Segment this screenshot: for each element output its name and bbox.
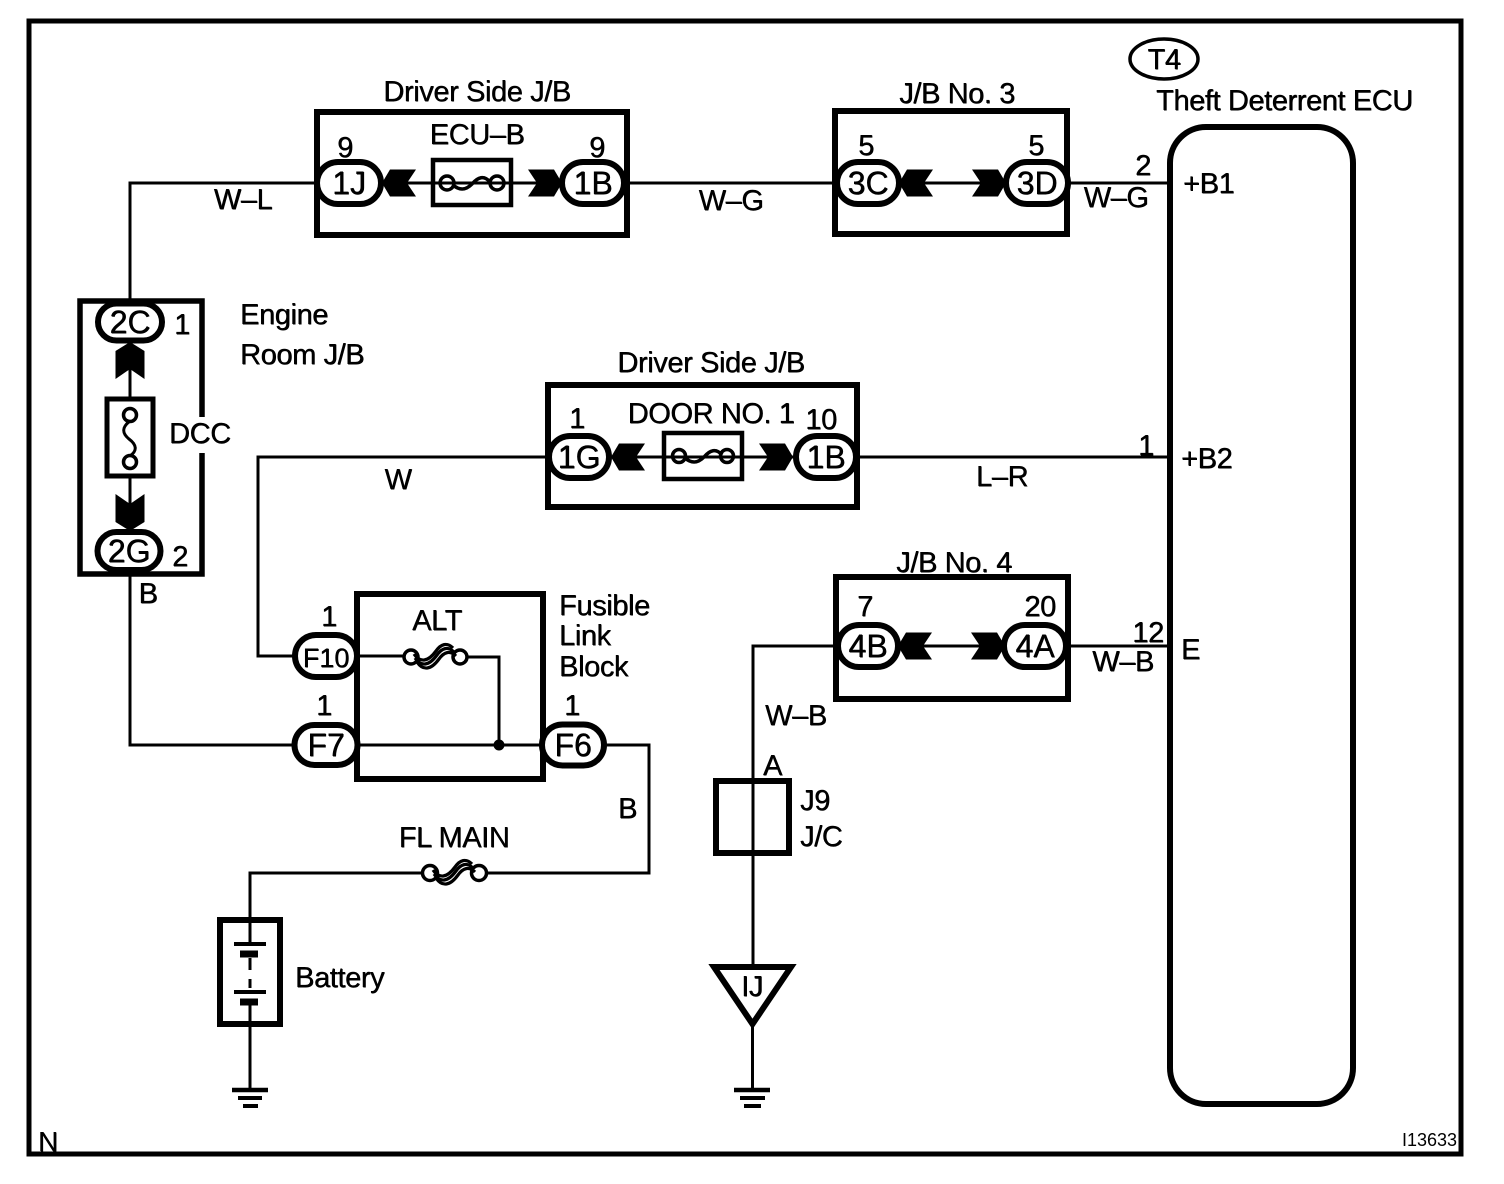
- svg-text:N: N: [39, 1126, 59, 1157]
- svg-text:FL MAIN: FL MAIN: [399, 822, 510, 854]
- fusible link FL MAIN: [423, 866, 438, 881]
- wire inside: [899, 182, 1006, 185]
- ECU box: [1170, 127, 1353, 1104]
- connector F6: [542, 725, 604, 766]
- wire inside vertical: [129, 340, 132, 415]
- svg-text:20: 20: [1025, 591, 1056, 623]
- junction node: [494, 740, 505, 751]
- wire inside: [609, 456, 796, 459]
- svg-text:1B: 1B: [807, 439, 846, 475]
- arrow right: [528, 170, 562, 197]
- svg-text:10: 10: [806, 404, 837, 436]
- fuse DCC: [107, 399, 153, 476]
- connector 3C: [837, 162, 899, 204]
- svg-text:1: 1: [570, 403, 586, 435]
- wire from 4B down to IJ: [753, 646, 838, 967]
- svg-text:7: 7: [858, 591, 874, 623]
- svg-text:3C: 3C: [848, 165, 889, 201]
- svg-text:3D: 3D: [1017, 165, 1058, 201]
- svg-text:2: 2: [173, 541, 189, 573]
- svg-text:W–B: W–B: [766, 700, 828, 732]
- junction box J/B No.3: [835, 111, 1067, 234]
- label DCC: [164, 417, 234, 453]
- svg-text:F10: F10: [303, 643, 350, 673]
- arrow right: [972, 170, 1006, 197]
- connector 2C: [98, 304, 162, 341]
- svg-text:2C: 2C: [110, 304, 151, 340]
- wire from FL MAIN to battery: [250, 873, 422, 920]
- junction box: [548, 385, 857, 507]
- junction box Engine Room J/B: [80, 301, 202, 574]
- connector 1B: [796, 436, 856, 478]
- svg-text:W: W: [385, 464, 413, 496]
- arrow left: [899, 170, 933, 197]
- arrow left: [382, 170, 416, 197]
- svg-text:+B2: +B2: [1182, 443, 1233, 475]
- svg-text:Battery: Battery: [296, 962, 386, 994]
- connector 4A: [1004, 625, 1066, 667]
- wire from ALT to junction: [467, 657, 499, 745]
- svg-text:12: 12: [1133, 617, 1164, 649]
- arrow down: [116, 494, 145, 531]
- svg-text:1: 1: [322, 601, 338, 633]
- arrow left: [611, 444, 645, 471]
- wire to ECU E: [1066, 645, 1170, 648]
- ground triangle IJ: [714, 967, 791, 1024]
- svg-text:DOOR NO. 1: DOOR NO. 1: [628, 398, 795, 430]
- svg-text:Theft Deterrent ECU: Theft Deterrent ECU: [1157, 85, 1414, 117]
- svg-text:Block: Block: [560, 651, 630, 683]
- wire from F6 down to FL MAIN: [487, 745, 649, 873]
- wire inside: [898, 645, 1005, 648]
- svg-text:4B: 4B: [849, 628, 888, 664]
- fuse DOOR NO.1: [664, 433, 742, 479]
- battery box: [220, 920, 280, 1024]
- arrow right: [759, 444, 793, 471]
- svg-text:2G: 2G: [108, 533, 151, 569]
- svg-text:L–R: L–R: [977, 461, 1029, 493]
- connector F7: [295, 725, 358, 765]
- svg-text:W–G: W–G: [1084, 182, 1149, 214]
- wire to ECU +B2: [856, 456, 1170, 459]
- wire from IJ to ground: [751, 1024, 754, 1090]
- connector 3D: [1006, 162, 1068, 204]
- svg-text:Driver Side J/B: Driver Side J/B: [384, 76, 571, 108]
- fuse ECU-B: [433, 160, 511, 205]
- connector 4B: [838, 625, 898, 667]
- wire from 1G to corner and down to F10: [258, 457, 548, 656]
- wire W-L from Engine Room J/B to 1J: [130, 183, 317, 304]
- svg-text:DCC: DCC: [170, 418, 232, 450]
- svg-text:Link: Link: [560, 620, 612, 652]
- ground right: [734, 1088, 770, 1093]
- svg-text:1: 1: [317, 690, 333, 722]
- svg-text:B: B: [619, 793, 638, 825]
- svg-text:E: E: [1182, 634, 1201, 666]
- connector 1J: [317, 162, 381, 204]
- connector oval T4: [1130, 39, 1198, 79]
- svg-text:1B: 1B: [574, 165, 613, 201]
- svg-text:Driver Side J/B: Driver Side J/B: [618, 347, 805, 379]
- battery plates: [249, 920, 252, 943]
- svg-text:1J: 1J: [333, 165, 367, 201]
- connector 1G: [549, 436, 609, 478]
- svg-text:J/C: J/C: [801, 821, 843, 853]
- ground left: [232, 1088, 268, 1093]
- svg-text:Room J/B: Room J/B: [241, 339, 365, 371]
- svg-text:ALT: ALT: [413, 605, 464, 637]
- svg-text:F7: F7: [308, 727, 345, 763]
- svg-text:Engine: Engine: [241, 299, 329, 331]
- junction box Driver Side J/B: [317, 112, 627, 235]
- svg-text:B: B: [139, 578, 158, 610]
- junction box: [836, 577, 1068, 699]
- svg-text:W–B: W–B: [1093, 646, 1155, 678]
- block box: [357, 594, 543, 779]
- svg-text:W–L: W–L: [214, 184, 273, 216]
- fusible link ALT: [357, 655, 404, 658]
- svg-text:F6: F6: [555, 727, 592, 763]
- svg-text:T4: T4: [1148, 44, 1181, 76]
- svg-text:Fusible: Fusible: [560, 590, 651, 622]
- svg-text:+B1: +B1: [1184, 168, 1235, 200]
- arrow up: [116, 342, 145, 379]
- junction connector J9 J/C: [716, 781, 789, 853]
- connector 2G: [98, 532, 161, 570]
- svg-text:J/B No. 3: J/B No. 3: [900, 78, 1016, 110]
- wire from 2G down to F7: [130, 570, 295, 745]
- arrow right: [971, 633, 1005, 660]
- wire W-G between boxes: [624, 182, 837, 185]
- svg-text:1: 1: [175, 309, 191, 341]
- wire to ECU +B1: [1068, 182, 1170, 185]
- connector F10: [295, 635, 357, 677]
- svg-text:ECU–B: ECU–B: [430, 119, 525, 151]
- svg-text:1: 1: [1139, 430, 1155, 462]
- svg-text:2: 2: [1136, 150, 1152, 182]
- svg-text:1: 1: [565, 690, 581, 722]
- svg-text:J9: J9: [801, 785, 831, 817]
- svg-text:1G: 1G: [558, 439, 601, 475]
- svg-text:4A: 4A: [1016, 628, 1056, 664]
- connector 1B: [562, 162, 624, 204]
- svg-text:A: A: [764, 750, 784, 782]
- svg-text:5: 5: [1029, 130, 1045, 162]
- wire battery to ground: [249, 1024, 252, 1090]
- svg-text:I13633: I13633: [1402, 1130, 1457, 1150]
- svg-text:5: 5: [859, 130, 875, 162]
- svg-text:W–G: W–G: [699, 185, 764, 217]
- arrow left: [898, 633, 932, 660]
- svg-text:IJ: IJ: [742, 971, 764, 1003]
- wire inside ECU-B box: [381, 182, 562, 185]
- wire F7 to F6: [358, 744, 542, 747]
